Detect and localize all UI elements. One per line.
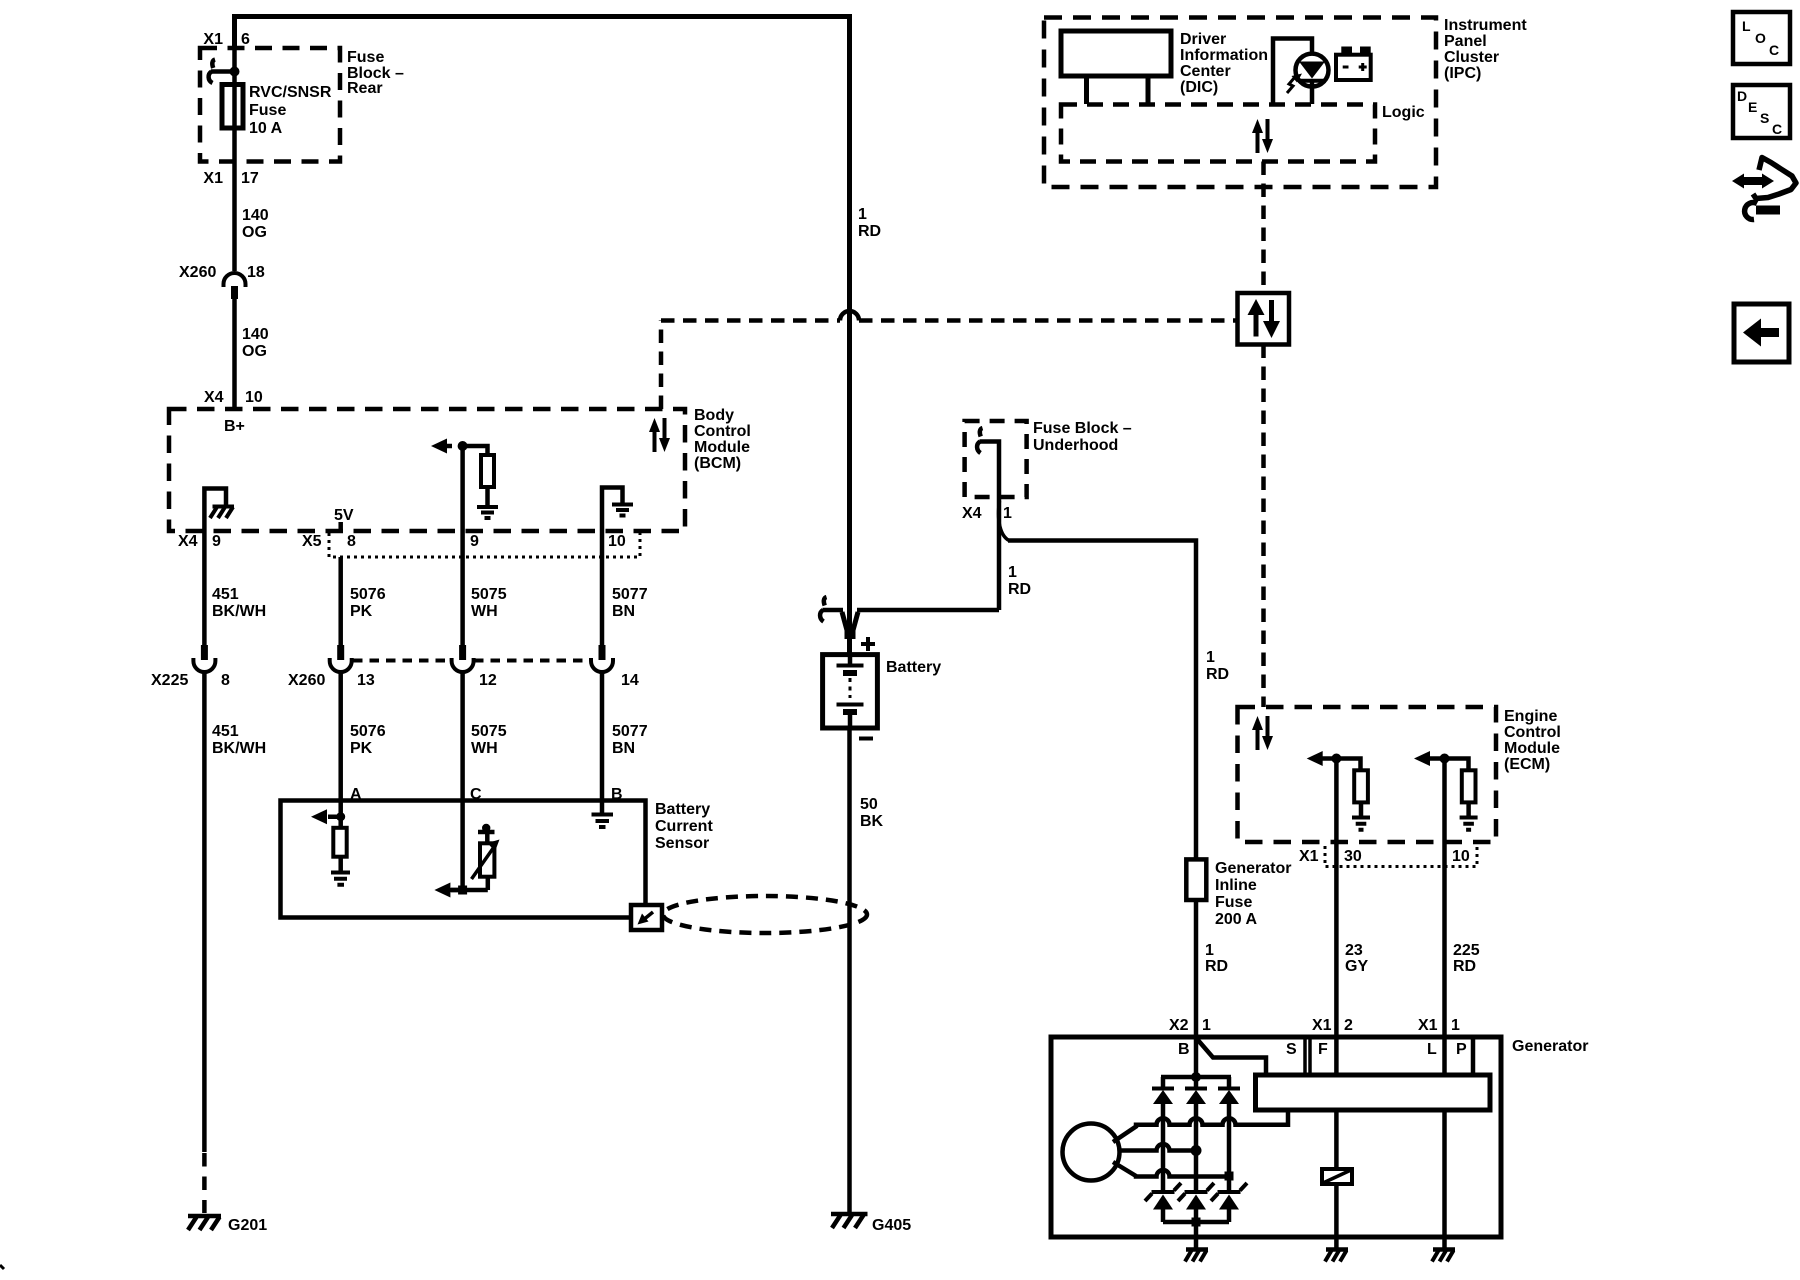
sensor clamp square: [631, 905, 662, 930]
svg-text:OG: OG: [242, 343, 267, 360]
indicator LED: [1287, 54, 1329, 93]
chassis ground generator field: [1325, 1250, 1348, 1262]
icon back-arrow box: [1734, 304, 1789, 362]
svg-text:P: P: [1456, 1041, 1467, 1058]
svg-text:50: 50: [860, 796, 878, 813]
icon DESC box: [1733, 85, 1790, 138]
stator phase 3 winding: [1113, 1162, 1227, 1177]
svg-text:BN: BN: [612, 740, 635, 757]
svg-text:X1: X1: [1418, 1017, 1438, 1034]
svg-text:Current: Current: [655, 818, 713, 835]
label Driver Information Center (DIC): [1180, 31, 1268, 96]
svg-text:F: F: [1318, 1041, 1328, 1058]
icon LOC box: [1733, 12, 1790, 64]
svg-text:X1: X1: [1312, 1017, 1332, 1034]
svg-text:Driver: Driver: [1180, 31, 1226, 48]
rotor circle: [1063, 1124, 1120, 1181]
connector X260 pin 18: [179, 264, 265, 299]
rectifier diode 2: [1185, 1077, 1207, 1190]
junction dot phase 2: [1191, 1145, 1202, 1156]
wire 5075 WH upper: [460, 531, 465, 645]
splice pigtail in underhood fuse block: [977, 428, 982, 453]
ground in BCM pin9: [477, 507, 498, 518]
wire splice to battery junction: [823, 608, 844, 613]
chassis ground in BCM: [210, 507, 234, 519]
junction dot ECM pin30: [1331, 754, 1341, 764]
svg-text:Fuse: Fuse: [1215, 894, 1252, 911]
svg-text:X5: X5: [302, 533, 322, 550]
svg-text:G201: G201: [228, 1217, 267, 1234]
svg-text:8: 8: [347, 533, 356, 550]
svg-text:1: 1: [858, 206, 867, 223]
regulator tab divider S-F: [1305, 1038, 1310, 1075]
svg-text:Module: Module: [1504, 740, 1560, 757]
wire resistor to ground: [485, 487, 490, 507]
svg-text:9: 9: [212, 533, 221, 550]
regulator tab divider P right: [1471, 1038, 1476, 1075]
svg-text:1: 1: [1008, 564, 1017, 581]
DIC legs: [1087, 76, 1149, 104]
label 5076 PK lower: [350, 723, 386, 757]
generator terminal letters B S F L P: [1178, 1041, 1467, 1058]
node battery minus sign: [859, 737, 873, 741]
wire 451 BK/WH lower: [202, 672, 207, 1152]
resistor in BCM: [481, 455, 494, 487]
svg-text:Body: Body: [694, 407, 734, 424]
svg-text:RD: RD: [858, 223, 881, 240]
svg-text:Inline: Inline: [1215, 877, 1257, 894]
label 5075 WH lower: [471, 723, 507, 757]
label RVC/SNSR Fuse 10 A: [249, 84, 332, 137]
wire L regulator to ground: [1442, 1110, 1447, 1248]
voltage regulator bar: [1256, 1075, 1491, 1110]
wire 451 BK/WH upper: [202, 531, 207, 645]
junction dot at fuse feed: [230, 67, 240, 77]
svg-text:(ECM): (ECM): [1504, 756, 1550, 773]
label Generator Inline Fuse 200 A: [1215, 860, 1291, 928]
svg-text:X1: X1: [203, 31, 223, 48]
svg-text:E: E: [1748, 99, 1757, 115]
svg-text:X4: X4: [962, 505, 982, 522]
resistor in sensor: [333, 828, 346, 857]
svg-text:B+: B+: [224, 418, 245, 435]
svg-text:8: 8: [221, 672, 230, 689]
label Instrument Panel Cluster (IPC): [1444, 17, 1527, 82]
wire label 23 GY: [1345, 942, 1368, 975]
svg-text:Engine: Engine: [1504, 708, 1557, 725]
DIC display box: [1061, 31, 1171, 76]
svg-text:140: 140: [242, 207, 269, 224]
svg-text:1: 1: [1003, 505, 1012, 522]
wire ECM pin10 internal: [1430, 759, 1469, 771]
wire 451 dashed tail to G201: [202, 1153, 207, 1213]
data arrow sensor pin A: [311, 809, 327, 824]
connector X1 dotted pin box ECM: [1325, 844, 1477, 867]
svg-text:Battery: Battery: [886, 659, 941, 676]
chassis ground generator rectifier: [1185, 1250, 1208, 1262]
svg-text:30: 30: [1344, 848, 1362, 865]
svg-text:X225: X225: [151, 672, 188, 689]
svg-text:Center: Center: [1180, 63, 1231, 80]
svg-text:Generator: Generator: [1215, 860, 1291, 877]
label 5076 PK upper: [350, 586, 386, 620]
wire sensor pin B internal: [600, 801, 605, 814]
svg-text:10: 10: [245, 389, 263, 406]
junction dot bottom rail: [1192, 1218, 1201, 1227]
svg-text:WH: WH: [471, 740, 498, 757]
svg-text:S: S: [1760, 110, 1769, 126]
wire serial dashed hop: [840, 311, 859, 321]
wire label 140 OG lower: [242, 326, 269, 360]
svg-text:9: 9: [470, 533, 479, 550]
node X4 pin 1 labels: [962, 505, 1012, 522]
connector X260 dashed link line: [353, 659, 592, 663]
wire 5076 PK upper: [338, 557, 343, 645]
wire BCM pin9 internal: [463, 446, 488, 531]
junction dot BCM pin9: [458, 441, 468, 451]
svg-text:X1: X1: [1299, 848, 1319, 865]
wire L-P through tab: [1442, 1075, 1447, 1110]
label 5075 WH upper: [471, 586, 507, 620]
svg-text:Sensor: Sensor: [655, 835, 709, 852]
svg-text:GY: GY: [1345, 958, 1368, 975]
label 451 BK/WH lower: [212, 723, 266, 757]
ground in sensor pin A: [331, 873, 350, 885]
svg-text:X1: X1: [203, 170, 223, 187]
splice pigtail in fuse block rear: [209, 60, 215, 84]
wire B pin to rectifier rail: [1194, 1037, 1199, 1077]
wire serial dashed BCM line: [661, 321, 840, 410]
serial data arrows in BCM: [649, 418, 670, 452]
svg-text:Fuse: Fuse: [347, 49, 384, 66]
svg-text:OG: OG: [242, 224, 267, 241]
connector X260 pin 13: [288, 645, 375, 689]
wire inline fuse to generator: [1194, 900, 1199, 1037]
wire field coil to ground: [1334, 1184, 1339, 1248]
wire resistor to ground in sensor: [338, 857, 343, 871]
svg-text:RD: RD: [1206, 666, 1229, 683]
svg-text:Rear: Rear: [347, 80, 383, 97]
svg-text:12: 12: [479, 672, 497, 689]
svg-text:Control: Control: [1504, 724, 1561, 741]
svg-text:1: 1: [1205, 942, 1214, 959]
svg-text:BK/WH: BK/WH: [212, 603, 266, 620]
wire rectifier to ground: [1194, 1222, 1199, 1248]
svg-text:L: L: [1742, 18, 1751, 34]
svg-text:5V: 5V: [334, 507, 354, 524]
node X4 pin 10 labels: [204, 389, 263, 406]
BCM pin labels X4 9 X5 8 9 10: [178, 533, 626, 550]
wire 5075 WH lower: [460, 672, 465, 801]
svg-text:L: L: [1427, 1041, 1437, 1058]
zener diode 3: [1211, 1183, 1247, 1222]
svg-text:BN: BN: [612, 603, 635, 620]
field coil: [1322, 1169, 1352, 1184]
junction square phase 3: [1225, 1172, 1234, 1181]
svg-text:B: B: [1178, 1041, 1190, 1058]
svg-text:BK: BK: [860, 813, 884, 830]
connector X5 dotted pin box: [329, 531, 640, 557]
data arrow BCM pin9: [431, 439, 452, 454]
connector X225 pin 8: [151, 645, 230, 689]
svg-text:18: 18: [247, 264, 265, 281]
svg-text:10: 10: [608, 533, 626, 550]
splice pigtail at battery positive: [820, 597, 826, 622]
svg-text:WH: WH: [471, 603, 498, 620]
svg-text:451: 451: [212, 723, 239, 740]
node X1 pin 17 labels: [203, 170, 258, 187]
svg-text:(IPC): (IPC): [1444, 65, 1481, 82]
wire label 225 RD: [1453, 942, 1480, 975]
battery current sensor box: [281, 801, 646, 918]
svg-text:Battery: Battery: [655, 801, 710, 818]
label 5077 BN lower: [612, 723, 648, 757]
svg-text:Instrument: Instrument: [1444, 17, 1527, 34]
svg-text:X2: X2: [1169, 1017, 1189, 1034]
svg-text:23: 23: [1345, 942, 1363, 959]
generator box: [1051, 1037, 1501, 1237]
svg-text:10: 10: [1452, 848, 1470, 865]
svg-text:451: 451: [212, 586, 239, 603]
svg-text:RVC/SNSR: RVC/SNSR: [249, 84, 332, 101]
ECM pin labels X1 30 10: [1299, 848, 1470, 865]
zener diode 2: [1178, 1183, 1214, 1222]
stator phase 2 winding: [1120, 1144, 1197, 1151]
svg-text:BK/WH: BK/WH: [212, 740, 266, 757]
wire 23 GY ECM pin30 to generator: [1334, 759, 1339, 1076]
wire C arrow link: [449, 888, 488, 893]
wire fuse feed vertical: [232, 48, 237, 271]
connector X260 pin 12: [452, 645, 497, 689]
svg-text:1: 1: [1206, 649, 1215, 666]
svg-text:10 A: 10 A: [249, 120, 283, 137]
data arrow ECM pin30: [1307, 751, 1323, 766]
ground in BCM pin10: [612, 505, 633, 516]
wire serial dashed data box to ECM: [1261, 345, 1266, 708]
battery: [823, 655, 878, 728]
svg-text:C: C: [1769, 42, 1779, 58]
wire 5077 BN upper: [600, 531, 605, 645]
resistor ECM pin30: [1354, 770, 1368, 802]
wire 50 BK to G405: [847, 728, 852, 1212]
svg-text:C: C: [1772, 121, 1782, 137]
zener diode 1: [1145, 1183, 1181, 1222]
icon wiring-route arrow: [1732, 158, 1796, 220]
svg-text:1: 1: [1451, 1017, 1460, 1034]
wire BCM pin10 internal: [602, 488, 623, 532]
rectifier bottom rail: [1163, 1220, 1229, 1225]
wire BCM internal ground pin X4-9: [204, 489, 226, 532]
wire sensor pin C internal: [451, 801, 488, 891]
svg-text:PK: PK: [350, 603, 373, 620]
fuse RVC/SNSR 10A: [222, 85, 243, 129]
node battery plus sign: [861, 637, 875, 651]
IPC dashed box: [1044, 18, 1436, 188]
wire 5V stub: [338, 522, 343, 531]
label Body Control Module (BCM): [694, 407, 751, 472]
svg-text:2: 2: [1344, 1017, 1353, 1034]
wire serial dashed to data box: [859, 318, 1238, 323]
wire label 1 RD top: [858, 206, 881, 240]
svg-text:D: D: [1737, 88, 1747, 104]
battery cable dashed ellipse: [663, 896, 867, 933]
BCM dashed box: [169, 409, 685, 531]
generator pin labels X2 1 X1 2 X1 1: [1169, 1017, 1460, 1034]
wire label 50 BK: [860, 796, 884, 830]
svg-text:Panel: Panel: [1444, 33, 1487, 50]
svg-text:RD: RD: [1008, 581, 1031, 598]
wire B to S diagonal: [1197, 1039, 1266, 1075]
battery terminal V clamp: [842, 612, 858, 639]
junction dot B rail: [1191, 1072, 1201, 1082]
wire label 1 RD generator feed: [1206, 649, 1229, 683]
svg-text:17: 17: [241, 170, 259, 187]
ground in sensor pin B: [592, 815, 614, 828]
data arrow sensor pin C: [434, 883, 450, 898]
stator phase 1 winding: [1113, 1110, 1288, 1142]
wire 5076 PK lower: [338, 672, 343, 801]
svg-text:Module: Module: [694, 439, 750, 456]
svg-text:5075: 5075: [471, 723, 507, 740]
serial data gateway box: [1238, 293, 1290, 345]
svg-text:RD: RD: [1205, 958, 1228, 975]
junction square sensor pin C: [458, 886, 467, 895]
wire F through tab: [1334, 1075, 1339, 1110]
generator inline fuse: [1186, 859, 1206, 900]
junction dot ECM pin10: [1440, 754, 1450, 764]
svg-text:PK: PK: [350, 740, 373, 757]
wire battery junction to underhood fuse block: [857, 608, 999, 613]
wire label 140 OG upper: [242, 207, 269, 241]
svg-text:Generator: Generator: [1512, 1038, 1588, 1055]
svg-text:X4: X4: [204, 389, 224, 406]
svg-text:14: 14: [621, 672, 639, 689]
IPC battery telltale icon: [1336, 47, 1371, 81]
svg-text:5077: 5077: [612, 586, 648, 603]
wire LED feed: [1273, 39, 1312, 105]
thermistor in sensor: [472, 824, 500, 879]
label Fuse Block - Underhood: [1033, 420, 1132, 454]
wire resistor to ground ECM pin30: [1359, 802, 1364, 816]
wire label 1 RD at underhood: [1008, 564, 1031, 598]
label Battery Current Sensor: [655, 801, 713, 852]
wire ECM pin30 internal: [1322, 759, 1361, 771]
stray mark bottom left: [0, 1265, 4, 1269]
serial data arrows in ECM: [1252, 716, 1273, 750]
data arrow ECM pin10: [1414, 751, 1430, 766]
svg-text:Underhood: Underhood: [1033, 437, 1118, 454]
node X1 pin 6 labels: [203, 31, 250, 48]
ground G201: [188, 1216, 267, 1234]
svg-text:Logic: Logic: [1382, 104, 1425, 121]
svg-text:5077: 5077: [612, 723, 648, 740]
svg-text:Fuse: Fuse: [249, 102, 286, 119]
wire sensor pin A internal: [328, 801, 341, 828]
pin letters A C B: [350, 786, 623, 803]
svg-text:200 A: 200 A: [1215, 911, 1258, 928]
wire top power rail: [235, 17, 850, 656]
ground ECM pin30: [1352, 818, 1370, 830]
wire 140 OG to BCM: [232, 299, 237, 409]
svg-text:G405: G405: [872, 1217, 911, 1234]
svg-text:5076: 5076: [350, 586, 386, 603]
svg-text:(DIC): (DIC): [1180, 79, 1218, 96]
logic dashed box: [1061, 105, 1375, 162]
wire F regulator to field coil: [1334, 1110, 1339, 1169]
svg-text:X260: X260: [288, 672, 325, 689]
serial data arrows in logic: [1252, 119, 1273, 153]
label 5077 BN upper: [612, 586, 648, 620]
wire label 1 RD below fuse: [1205, 942, 1228, 975]
svg-text:X260: X260: [179, 264, 216, 281]
rectifier diode 3: [1218, 1077, 1240, 1190]
rectifier diode 1: [1152, 1077, 1174, 1190]
label Fuse Block - Rear: [347, 49, 404, 97]
ground ECM pin10: [1460, 818, 1478, 830]
splice S-curve to generator feed: [999, 501, 1009, 541]
svg-text:(BCM): (BCM): [694, 455, 741, 472]
label Engine Control Module (ECM): [1504, 708, 1561, 773]
svg-text:5075: 5075: [471, 586, 507, 603]
wire underhood to generator inline fuse: [1008, 541, 1196, 860]
wire 5077 BN lower: [600, 672, 605, 801]
svg-text:Cluster: Cluster: [1444, 49, 1499, 66]
svg-text:Information: Information: [1180, 47, 1268, 64]
fuse block underhood dashed box: [965, 421, 1027, 497]
svg-text:13: 13: [357, 672, 375, 689]
label 451 BK/WH upper: [212, 586, 266, 620]
ground G405: [831, 1214, 911, 1234]
svg-text:X4: X4: [178, 533, 198, 550]
wire resistor to ground ECM pin10: [1466, 802, 1471, 816]
svg-text:6: 6: [241, 31, 250, 48]
fuse block rear dashed box: [200, 48, 340, 162]
svg-text:1: 1: [1202, 1017, 1211, 1034]
svg-text:RD: RD: [1453, 958, 1476, 975]
ECM dashed box: [1238, 707, 1497, 842]
svg-text:Control: Control: [694, 423, 751, 440]
junction dot sensor pin A: [336, 812, 345, 821]
resistor ECM pin10: [1462, 770, 1476, 802]
chassis ground generator L: [1432, 1250, 1455, 1262]
svg-text:S: S: [1286, 1041, 1297, 1058]
svg-text:Fuse Block –: Fuse Block –: [1033, 420, 1132, 437]
rectifier top rail: [1161, 1075, 1231, 1080]
connector X260 pin 14: [591, 645, 639, 689]
svg-text:140: 140: [242, 326, 269, 343]
svg-text:225: 225: [1453, 942, 1480, 959]
wire serial dashed IPC to data box: [1261, 162, 1266, 294]
wire underhood fuse to battery junction: [980, 442, 1000, 611]
svg-text:5076: 5076: [350, 723, 386, 740]
wire 225 RD ECM pin10 to generator: [1442, 759, 1447, 1076]
svg-text:O: O: [1755, 30, 1766, 46]
